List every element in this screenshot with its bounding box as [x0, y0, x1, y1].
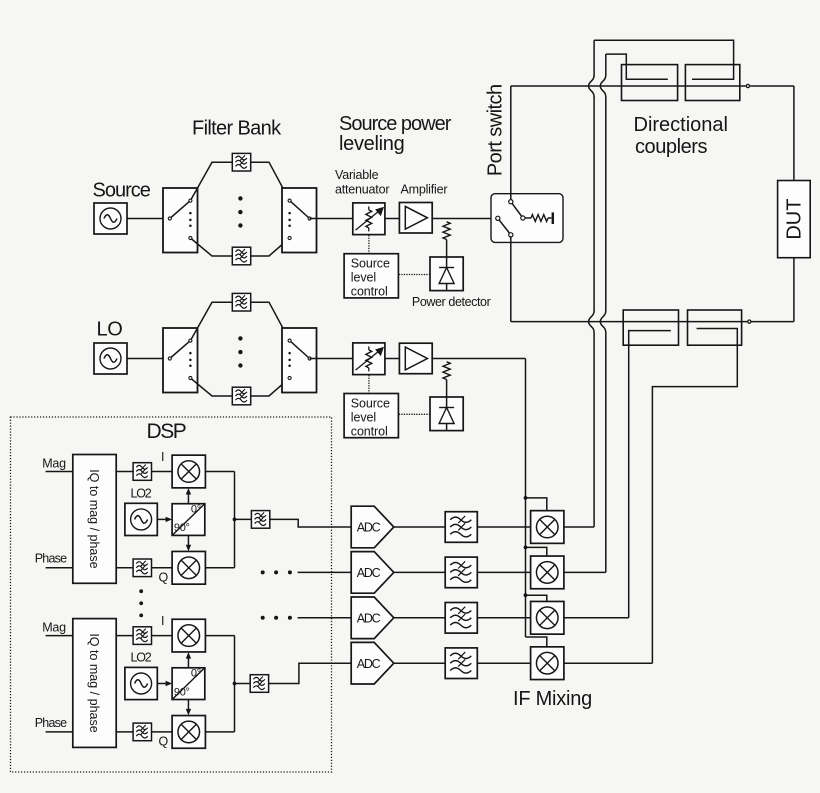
wire Phase (ch2)	[46, 731, 73, 733]
switch terminals left FB1	[168, 217, 171, 220]
svg-text:I: I	[161, 614, 164, 628]
mixer M3	[531, 601, 564, 634]
svg-text:Q: Q	[159, 735, 169, 749]
wire ADC2 to IF filter	[394, 571, 445, 573]
mixer MQ (ch1)	[172, 551, 205, 584]
control line SLC1 to detector (dotted)	[399, 274, 430, 276]
svg-text:LO2: LO2	[131, 487, 152, 501]
directional coupler DC3 box	[623, 310, 678, 345]
IF filter F3	[445, 603, 477, 634]
svg-text:Source: Source	[351, 257, 390, 271]
wire to ADC2	[298, 571, 352, 573]
IF filter F2	[445, 557, 477, 588]
wire DSP ch1 to out filter	[235, 518, 252, 520]
coupled arm DC4 down to mixer M4	[652, 329, 737, 664]
wire IQ box to Q filter (ch1)	[116, 567, 133, 569]
node port1 (circle)	[746, 84, 749, 87]
svg-text:Source power: Source power	[339, 113, 452, 135]
LO distribution vertical wire	[525, 359, 527, 638]
coupled arm DC1	[606, 54, 668, 79]
arrow splitter to mixer I (ch2)	[187, 657, 189, 668]
arrow LO2 to splitter (ch1)	[157, 518, 168, 520]
directional coupler DC1 box	[622, 65, 678, 101]
mixer M4	[531, 647, 564, 680]
wire port switch bottom to coupler line	[510, 237, 512, 322]
power detector diode D2	[430, 397, 463, 431]
svg-text:90°: 90°	[174, 522, 190, 534]
coupled arm DC3 down to mixer M3	[629, 331, 671, 618]
switch terminals left FB2	[168, 357, 171, 360]
IQ to mag/phase converter box (ch1)	[73, 455, 116, 584]
mixer M1	[531, 511, 564, 544]
wire FB1 to attenuator	[310, 218, 353, 220]
mixer output bus (ch1)	[205, 471, 234, 473]
wire coupler DC2 tap down to mixer M1	[593, 40, 595, 75]
variable attenuator ATT1	[353, 203, 385, 235]
source level control box SLC2	[344, 394, 398, 438]
ellipsis wires row3	[261, 616, 265, 620]
decimation filter ch1	[251, 511, 269, 529]
resistor R3 termination	[525, 217, 531, 219]
directional coupler DC4 box	[688, 310, 742, 345]
wire port switch to top coupler line	[510, 86, 512, 200]
resistor R1 (detector tap)	[443, 222, 450, 240]
svg-text:Amplifier: Amplifier	[401, 183, 448, 197]
wire ATT1 to AMP1	[385, 218, 400, 220]
svg-text:DSP: DSP	[147, 420, 186, 443]
resistor R2 (detector tap)	[443, 362, 450, 380]
wire mixer M4 output	[564, 662, 653, 664]
svg-text:attenuator: attenuator	[335, 183, 389, 197]
wire AMP1 to port switch	[432, 218, 496, 220]
svg-text:Phase: Phase	[35, 552, 67, 566]
ADC A4	[351, 642, 394, 684]
arrow LO2 to splitter (ch2)	[157, 683, 168, 685]
source LO1 (sine generator)	[94, 343, 127, 374]
wire mixer M1 output	[564, 526, 594, 528]
port switch box SW1	[491, 194, 563, 243]
filter ellipsis dots FB1	[238, 196, 242, 200]
IF filter F1	[445, 512, 477, 543]
node port2 (circle)	[748, 320, 751, 323]
IQ to mag/phase converter box (ch2)	[73, 619, 116, 748]
wire Mag (ch2)	[46, 635, 73, 637]
ellipsis wires row2	[261, 570, 265, 574]
svg-text:ADC: ADC	[357, 657, 381, 671]
lowpass filter I (ch1)	[133, 463, 151, 481]
directional coupler DC2 box	[685, 65, 739, 101]
lowpass filter Q (ch2)	[133, 723, 151, 741]
lowpass filter I (ch2)	[133, 627, 151, 645]
svg-text:leveling: leveling	[339, 133, 404, 155]
wire DSP ch2 to out filter	[235, 683, 251, 685]
ellipsis between DSP channels	[139, 589, 143, 593]
switch arm left FB1	[170, 201, 191, 219]
mixer MI (ch2)	[172, 619, 205, 652]
svg-text:IQ to mag / phase: IQ to mag / phase	[87, 469, 101, 568]
wire LO to M4	[526, 637, 547, 647]
ADC A1	[351, 506, 394, 548]
svg-text:Source: Source	[93, 179, 151, 201]
svg-text:Power detector: Power detector	[412, 295, 491, 309]
terminator bar	[552, 212, 554, 224]
svg-text:Mag: Mag	[42, 457, 66, 471]
svg-text:Port switch: Port switch	[484, 84, 506, 176]
wire I filter to mixer (ch2)	[152, 635, 173, 637]
wire AMP2 to LO distribution	[432, 358, 525, 360]
power detector diode D1	[430, 257, 463, 291]
switch box (right) FB1	[282, 188, 317, 253]
svg-text:90°: 90°	[174, 686, 190, 698]
top coupler main line	[511, 85, 746, 87]
quadrature splitter 0/90 (ch1)	[172, 504, 205, 536]
control line SLC1 to ATT1 (dotted)	[368, 235, 370, 253]
wire to top filter FB1	[190, 162, 232, 200]
junction bus out (ch1)	[233, 518, 237, 522]
svg-text:IQ to mag / phase: IQ to mag / phase	[87, 633, 101, 732]
junction LO to M1	[524, 496, 528, 500]
svg-text:0°: 0°	[191, 503, 201, 515]
DSP dashed enclosure	[11, 417, 332, 772]
switch box (left) FB1	[163, 188, 198, 253]
wire FB2 to attenuator ATT2	[310, 358, 353, 360]
wire mixer M2 output	[564, 571, 606, 573]
bandpass filter bottom FB2	[232, 387, 250, 405]
wire top filter to right switch FB1	[251, 162, 290, 200]
junction LO to M3	[524, 593, 528, 597]
ADC A2	[351, 552, 394, 594]
wire bottom filter to right switch FB2	[251, 378, 290, 396]
wire ADC4 to IF filter	[394, 662, 445, 664]
mixer MQ (ch2)	[172, 716, 205, 749]
svg-text:ADC: ADC	[357, 611, 381, 625]
svg-text:Filter Bank: Filter Bank	[192, 118, 282, 140]
wire node2 to DUT bottom	[751, 321, 794, 323]
svg-text:Q: Q	[159, 571, 169, 585]
control line SLC2 to ATT2 (dotted)	[368, 375, 370, 393]
mixer M2	[531, 556, 564, 589]
wire IF filter to mixer M4	[477, 662, 530, 664]
wire bottom filter to right switch FB1	[251, 238, 290, 256]
mixer output bus (ch2)	[205, 635, 234, 637]
source SRC1 (sine generator)	[94, 203, 127, 234]
decimation filter ch2	[250, 675, 268, 693]
variable attenuator ATT2	[353, 343, 385, 375]
wire ATT2 to AMP2	[385, 358, 400, 360]
svg-text:level: level	[351, 271, 376, 285]
switch arm SW1 common-to-top	[511, 202, 523, 218]
wire R1 to power detector	[446, 240, 448, 258]
wire IF filter to mixer M2	[477, 571, 530, 573]
IF filter F4	[445, 648, 477, 679]
svg-text:I: I	[161, 450, 164, 464]
wire IF filter to mixer M1	[477, 526, 530, 528]
switch box (left) FB2	[163, 328, 198, 393]
arrow splitter to mixer Q (ch1)	[187, 535, 189, 546]
wire top filter to right switch FB2	[251, 302, 290, 340]
wire ADC1 to IF filter	[394, 526, 445, 528]
port switch terminals	[509, 200, 513, 204]
switch box (right) FB2	[282, 328, 317, 393]
switch arm right FB1	[290, 201, 310, 219]
switch arm SW1 left-to-bottom	[498, 218, 511, 235]
filter ellipsis dots FB2	[238, 336, 242, 340]
wire to ADC3	[298, 617, 352, 619]
wire mixer M3 output	[564, 617, 629, 619]
wire SRC1 to filter-bank switch	[127, 218, 170, 220]
source level control box SLC1	[344, 254, 398, 298]
wire ch2 filter to ADC4	[269, 663, 352, 683]
bandpass filter bottom FB1	[232, 247, 250, 265]
wire Q filter to mixer (ch1)	[152, 567, 173, 569]
wire IQ box to Q filter (ch2)	[116, 731, 133, 733]
svg-text:couplers: couplers	[635, 136, 707, 158]
mixer MI (ch1)	[172, 455, 205, 488]
bandpass filter top FB2	[232, 293, 250, 311]
switch arm right FB2	[290, 341, 310, 359]
quadrature splitter 0/90 (ch2)	[172, 668, 205, 700]
wire LO1 to filter bank 2	[127, 358, 170, 360]
wire node to DUT top	[750, 85, 794, 87]
svg-text:control: control	[351, 285, 388, 299]
wire IQ box to I filter (ch2)	[116, 635, 133, 637]
switch terminals right FB1	[288, 199, 291, 202]
wire coupler DC1 tap down to mixer M2	[605, 54, 607, 75]
wire R2 to power detector 2	[446, 380, 448, 398]
arrow splitter to mixer I (ch1)	[187, 493, 189, 504]
wire Q filter to mixer (ch2)	[152, 731, 173, 733]
svg-text:ADC: ADC	[357, 566, 381, 580]
svg-text:level: level	[351, 410, 376, 424]
switch arm left FB2	[170, 341, 191, 359]
wire I filter to mixer (ch1)	[152, 471, 173, 473]
amplifier AMP1	[399, 203, 432, 234]
wire Phase (ch1)	[46, 567, 73, 569]
svg-text:LO: LO	[97, 318, 123, 340]
arrow splitter to mixer Q (ch2)	[187, 700, 189, 711]
svg-text:DUT: DUT	[783, 199, 805, 240]
svg-text:0°: 0°	[191, 668, 201, 680]
svg-text:Phase: Phase	[35, 716, 67, 730]
svg-text:LO2: LO2	[131, 651, 152, 665]
bandpass filter top FB1	[232, 153, 250, 171]
junction bus out (ch2)	[233, 682, 237, 686]
DUT box	[778, 181, 811, 258]
wire Mag (ch1)	[46, 471, 73, 473]
wire ADC3 to IF filter	[394, 617, 445, 619]
wire ch1 filter to ADC1	[270, 519, 351, 527]
source LO2 (ch1)	[125, 503, 157, 535]
svg-text:Source: Source	[351, 396, 390, 410]
svg-text:Variable: Variable	[335, 168, 379, 182]
wire IF filter to mixer M3	[477, 617, 530, 619]
wire IQ box to I filter (ch1)	[116, 471, 133, 473]
lowpass filter Q (ch1)	[133, 559, 151, 577]
wire to bottom filter FB1	[190, 238, 232, 256]
wire to top filter FB2	[190, 302, 232, 340]
source LO2 (ch2)	[125, 667, 157, 699]
ADC A3	[351, 597, 394, 639]
svg-text:ADC: ADC	[357, 521, 381, 535]
svg-text:Mag: Mag	[42, 621, 66, 635]
coupled arm DC2 to top wire	[594, 40, 734, 79]
junction LO to M2	[524, 546, 528, 550]
control line SLC2 to detector 2 (dotted)	[399, 413, 430, 415]
switch terminals right FB2	[288, 339, 291, 342]
svg-text:control: control	[351, 424, 388, 438]
svg-text:IF Mixing: IF Mixing	[513, 688, 592, 710]
wire to bottom filter FB2	[190, 378, 232, 396]
svg-text:Directional: Directional	[634, 114, 728, 136]
amplifier AMP2	[399, 343, 432, 374]
